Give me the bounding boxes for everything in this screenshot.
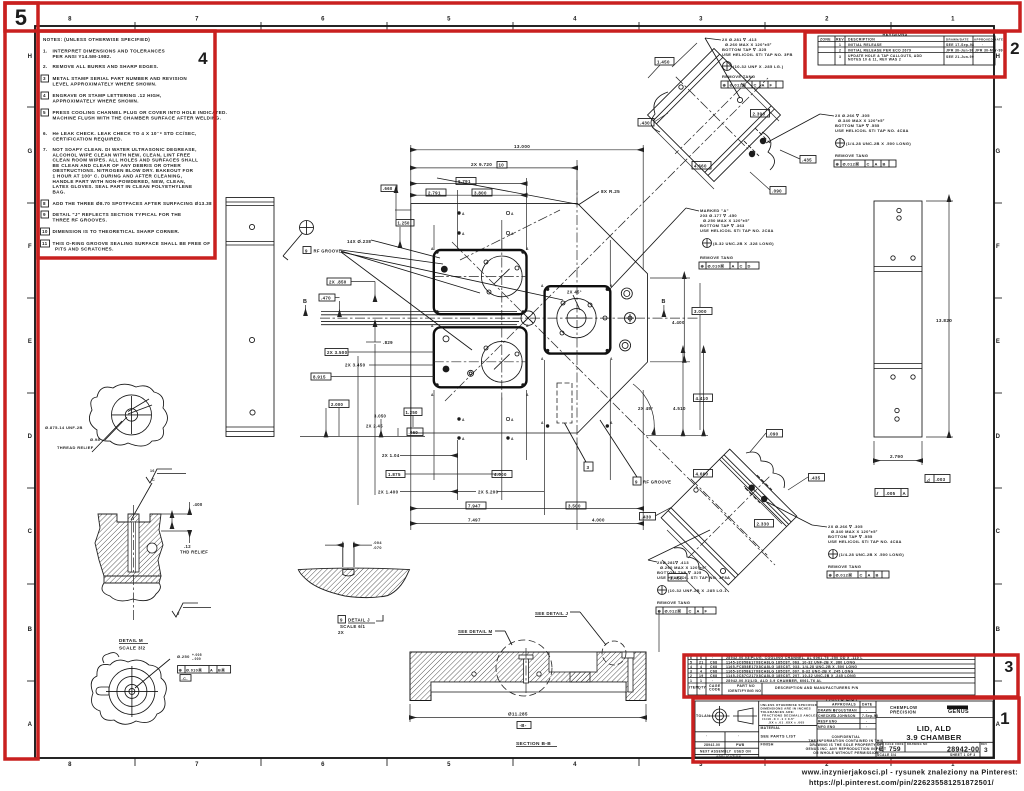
- svg-text:SEE 21-Jun-99: SEE 21-Jun-99: [946, 55, 974, 59]
- svg-text:·: ·: [706, 734, 707, 738]
- svg-text:19: 19: [699, 674, 704, 678]
- notes text block: [41, 37, 228, 252]
- svg-text:13.000: 13.000: [514, 144, 530, 149]
- thread relief detail blob: [89, 384, 167, 452]
- svg-text:APPROVED/DATE: APPROVED/DATE: [974, 38, 1003, 42]
- A-datum hole dots around plate: [431, 211, 613, 441]
- svg-text:.070: .070: [373, 546, 382, 550]
- svg-text:·: ·: [866, 720, 867, 724]
- detail J bowl: [298, 541, 409, 598]
- top right hole callout text: [766, 113, 911, 167]
- svg-text:1.250: 1.250: [406, 410, 419, 415]
- svg-text:METAL STAMP SERIAL PART NUMBER: METAL STAMP SERIAL PART NUMBER AND REVIS…: [53, 76, 188, 81]
- svg-text:2.: 2.: [43, 64, 48, 69]
- svg-text:3: 3: [699, 17, 703, 23]
- svg-text:3.500: 3.500: [568, 504, 581, 509]
- svg-text:A: A: [511, 232, 514, 236]
- svg-text:PITS AND SCRATCHES.: PITS AND SCRATCHES.: [55, 247, 114, 252]
- svg-text:T. JOHNSON: T. JOHNSON: [833, 714, 856, 718]
- tolerance cell: [761, 703, 818, 725]
- svg-text:2X 3.500: 2X 3.500: [327, 350, 348, 355]
- svg-text:DETAIL M: DETAIL M: [119, 638, 143, 643]
- right part 2.790 dim: [874, 441, 922, 465]
- svg-text:Ø.98: Ø.98: [90, 437, 100, 442]
- marked A callout text: [608, 208, 774, 291]
- svg-text:(8-32 UNC-2B X .328 LONG): (8-32 UNC-2B X .328 LONG): [713, 241, 774, 246]
- section B-B bottom dim: [410, 704, 646, 747]
- svg-text:A: A: [28, 722, 33, 728]
- svg-text:1145-3C858E17X8CA8LG 185C8T.: 1145-3C858E17X8CA8LG 185C8T. 063, 10-32 …: [726, 661, 855, 665]
- svg-text:THIS O-RING GROOVE SEALING SUR: THIS O-RING GROOVE SEALING SURFACE SHALL…: [53, 241, 211, 246]
- svg-text:2.790: 2.790: [890, 454, 903, 459]
- svg-text:21: 21: [699, 661, 704, 665]
- svg-text:A: A: [462, 212, 465, 216]
- svg-text:A: A: [462, 418, 465, 422]
- svg-text:CERTIFICATION REQUIRED.: CERTIFICATION REQUIRED.: [53, 137, 123, 142]
- svg-text:4: 4: [690, 665, 692, 669]
- svg-text:MACHINE FLUSH WITH THE CHAMBER: MACHINE FLUSH WITH THE CHAMBER SURFACE A…: [53, 116, 222, 121]
- svg-text:B: B: [28, 627, 33, 633]
- diagonal centerline to top rotated part: [445, 78, 768, 401]
- svg-text:BE CLEAN AND CLEAR OF ANY DEBR: BE CLEAN AND CLEAR OF ANY DEBRIS OR OTHE…: [53, 163, 182, 168]
- diagonal centerline to bottom rotated part: [452, 242, 775, 565]
- svg-text:DESCRIPTION: DESCRIPTION: [848, 38, 875, 42]
- svg-text:SCALE 3/4: SCALE 3/4: [877, 753, 896, 757]
- svg-text:.12: .12: [184, 544, 191, 549]
- dashed slot below boss3: [557, 383, 586, 462]
- index hole circles right of boss3: [620, 288, 636, 351]
- svg-text:A: A: [462, 437, 465, 441]
- svg-text:5: 5: [43, 110, 46, 115]
- svg-text:6: 6: [321, 17, 325, 23]
- svg-text:3: 3: [984, 747, 988, 754]
- svg-text:7.947: 7.947: [468, 504, 481, 509]
- center RF boss square 3: [545, 286, 611, 353]
- svg-text:NOT SOAPY CLEAN. DI WATER ULTR: NOT SOAPY CLEAN. DI WATER ULTRASONIC DEG…: [53, 147, 197, 152]
- svg-text:RESP ENG: RESP ENG: [818, 720, 837, 724]
- detail M blob: [91, 653, 170, 725]
- svg-text:(10-32 UNF-2B X .285 LG.1: (10-32 UNF-2B X .285 LG.1: [668, 588, 727, 593]
- svg-text:A: A: [210, 668, 213, 672]
- svg-text:-C-: -C-: [182, 677, 189, 681]
- svg-text:A: A: [511, 437, 514, 441]
- svg-text:QTY: QTY: [698, 686, 707, 690]
- svg-text:PWB: PWB: [736, 743, 745, 747]
- svg-text:A: A: [541, 284, 544, 288]
- svg-text:◿: ◿: [926, 477, 931, 482]
- svg-text:.005: .005: [886, 491, 896, 496]
- svg-text:2: 2: [825, 17, 829, 23]
- svg-text:THREAD RELIEF: THREAD RELIEF: [57, 445, 94, 450]
- center stud detail M feature: [519, 655, 533, 659]
- svg-text:2X 1.400: 2X 1.400: [378, 490, 399, 495]
- svg-text:Ø.875-14 UNF-2B: Ø.875-14 UNF-2B: [45, 425, 83, 430]
- svg-text:C: C: [740, 264, 743, 269]
- svg-text:IDENTIFYING NO: IDENTIFYING NO: [728, 689, 761, 693]
- bottom dimension stack: [300, 360, 643, 530]
- svg-text:(1/4-28 UNC-2B X .500 LONG): (1/4-28 UNC-2B X .500 LONG): [846, 141, 911, 146]
- svg-text:4.000: 4.000: [494, 472, 507, 477]
- top part dims: [638, 43, 816, 194]
- svg-text:DRAWING NO: DRAWING NO: [907, 742, 928, 746]
- svg-text:4.510: 4.510: [673, 406, 686, 411]
- svg-text:3: 3: [43, 76, 46, 81]
- svg-text:SHEET 1 OF 3: SHEET 1 OF 3: [950, 753, 975, 757]
- svg-text:1: 1: [690, 679, 692, 683]
- svg-text:·: ·: [866, 725, 867, 729]
- svg-text:3.000: 3.000: [694, 309, 707, 314]
- svg-text:1145-2C87C217X8CA8LG 185C8T. 2: 1145-2C87C217X8CA8LG 185C8T. 207. 10-32 …: [726, 674, 856, 678]
- svg-text:www.inzynierjakosci.pl - rysun: www.inzynierjakosci.pl - rysunek znalezi…: [801, 768, 1018, 777]
- svg-text:G: G: [995, 149, 1000, 155]
- svg-text:1.450: 1.450: [657, 59, 670, 64]
- svg-text:7.: 7.: [43, 147, 48, 152]
- right part 13.820 dim: [926, 201, 953, 437]
- red highlight box 5 : left margin column: [5, 3, 38, 759]
- svg-text:.400: .400: [193, 502, 203, 507]
- plate centerlines: [320, 78, 775, 565]
- svg-text:DATE: DATE: [862, 703, 873, 707]
- svg-text:4: 4: [700, 670, 702, 674]
- svg-text:ZONE: ZONE: [820, 38, 831, 42]
- svg-text:HANDLE PART WITH NON-POWDERED,: HANDLE PART WITH NON-POWDERED, NEW, CLEA…: [53, 179, 186, 184]
- svg-text:CODE: CODE: [709, 688, 721, 692]
- svg-text:C: C: [152, 478, 155, 482]
- svg-text:⊕: ⊕: [829, 573, 833, 578]
- svg-text:Ø.010Ⓜ: Ø.010Ⓜ: [186, 667, 202, 672]
- white pocket: [549, 652, 597, 672]
- svg-text:JPR 30-Jun-98: JPR 30-Jun-98: [946, 49, 974, 53]
- detail M callout: [177, 653, 231, 681]
- svg-text:.XX ± .01 .XXX ± .005: .XX ± .01 .XXX ± .005: [768, 721, 805, 725]
- svg-text:BⓂ: BⓂ: [218, 667, 225, 672]
- svg-text:USE HELICOIL STI TAP NO. 4C8A: USE HELICOIL STI TAP NO. 4C8A: [828, 539, 902, 544]
- svg-text:A: A: [732, 264, 735, 269]
- svg-text:Ø.012Ⓜ: Ø.012Ⓜ: [843, 161, 860, 167]
- red highlight box 4 : notes: [38, 31, 215, 258]
- svg-text:A: A: [697, 609, 700, 614]
- svg-text:He LEAK CHECK. LEAK CHECK TO 4: He LEAK CHECK. LEAK CHECK TO 4 X 10⁻⁹ ST…: [53, 131, 197, 136]
- svg-text:3: 3: [839, 55, 841, 59]
- svg-text:USE HELICOIL STI TAP NO. 3FB: USE HELICOIL STI TAP NO. 3FB: [722, 52, 793, 57]
- svg-text:SCALE 6/1: SCALE 6/1: [340, 624, 366, 629]
- svg-text:4: 4: [43, 93, 46, 98]
- svg-text:8.915: 8.915: [313, 375, 326, 380]
- svg-text:INITIAL RELEASE PER ECO 2679: INITIAL RELEASE PER ECO 2679: [848, 49, 911, 53]
- svg-text:3.800: 3.800: [474, 190, 487, 195]
- svg-text:USE HELICOIL STI TAP NO. 4C8A: USE HELICOIL STI TAP NO. 4C8A: [835, 128, 909, 133]
- top part hole callout text: [705, 37, 793, 98]
- svg-text:LID, ALD: LID, ALD: [917, 724, 952, 733]
- svg-text:1 HOUR AT 100° C. DURING AND A: 1 HOUR AT 100° C. DURING AND AFTER CLEAN…: [53, 174, 183, 179]
- svg-text:.060: .060: [409, 430, 419, 435]
- svg-text:H: H: [28, 54, 33, 60]
- svg-text:SCALE 3/2: SCALE 3/2: [119, 646, 145, 651]
- right side dims of plate: [633, 278, 713, 435]
- svg-text:3.050: 3.050: [374, 414, 387, 419]
- svg-text:https://pl.pinterest.com/pin/2: https://pl.pinterest.com/pin/22623558125…: [809, 778, 994, 787]
- svg-text:5: 5: [447, 17, 451, 23]
- svg-text:1: 1: [1000, 709, 1010, 728]
- svg-text:2X .850: 2X .850: [329, 280, 347, 285]
- svg-text:5: 5: [447, 762, 451, 768]
- svg-text:RF GROOVE: RF GROOVE: [643, 480, 671, 485]
- svg-text:A: A: [762, 83, 765, 88]
- svg-text:B: B: [996, 627, 1001, 633]
- svg-text:6: 6: [321, 762, 325, 768]
- svg-text:D: D: [748, 264, 751, 269]
- flag 3: [584, 462, 593, 471]
- svg-text:ALCOHOL WIPE CLEAN WITH NEW, C: ALCOHOL WIPE CLEAN WITH NEW, CLEAN, LINT…: [53, 152, 191, 157]
- svg-text:F: F: [28, 244, 32, 250]
- svg-text:A: A: [511, 418, 514, 422]
- svg-text:PER ANSI Y14.5M-1982.: PER ANSI Y14.5M-1982.: [53, 54, 112, 59]
- svg-text:NOTES 10 & 11, REV WAS 2: NOTES 10 & 11, REV WAS 2: [848, 58, 901, 62]
- svg-text:·: ·: [712, 679, 714, 683]
- svg-text:3.9 CHAMBER: 3.9 CHAMBER: [906, 733, 961, 742]
- diagonal centerline upper-left short: [460, 210, 560, 260]
- svg-text:·: ·: [982, 43, 983, 47]
- svg-text:INITIAL RELEASE: INITIAL RELEASE: [848, 43, 882, 47]
- svg-text:B: B: [303, 299, 307, 305]
- svg-text:.435: .435: [802, 157, 812, 162]
- left small dim boxes: [358, 185, 414, 505]
- svg-text:1165-FC858E17X8CA8LG 185C8T. 0: 1165-FC858E17X8CA8LG 185C8T. 033. 1/4-28…: [726, 665, 857, 669]
- stacked horizontal lines left of X node: [321, 312, 519, 325]
- datum target symbol near left part: [283, 221, 314, 257]
- svg-text:⊕: ⊕: [658, 609, 662, 614]
- thread relief labels: [45, 425, 100, 450]
- svg-text:F: F: [705, 609, 708, 614]
- svg-text:2: 2: [839, 49, 841, 53]
- svg-text:DIMENSION IS TO THEORETICAL SH: DIMENSION IS TO THEORETICAL SHARP CORNER…: [53, 229, 180, 234]
- svg-text:MFG ENG: MFG ENG: [818, 725, 835, 729]
- svg-text:2X 9.720: 2X 9.720: [471, 162, 492, 167]
- svg-text:USED ON: USED ON: [734, 750, 751, 754]
- svg-text:.003: .003: [936, 477, 946, 482]
- footer credit text: [801, 768, 1018, 788]
- svg-text:G. GUSTMAN: G. GUSTMAN: [833, 709, 857, 713]
- svg-text:⫽: ⫽: [876, 491, 879, 496]
- svg-text:4.660: 4.660: [696, 471, 709, 476]
- bottom part dims: [640, 430, 825, 595]
- svg-text:C68: C68: [710, 665, 717, 669]
- surface finish symbol 1: [131, 469, 186, 520]
- svg-text:5: 5: [690, 661, 692, 665]
- svg-text:E: E: [28, 339, 32, 345]
- svg-text:OR WHOLE WITHOUT PERMISSION: OR WHOLE WITHOUT PERMISSION: [813, 751, 879, 755]
- red highlight box 1 : title block: [693, 698, 1019, 762]
- svg-text:10: 10: [499, 163, 505, 168]
- SEE DETAIL labels: [458, 611, 606, 645]
- svg-text:APPROXIMATELY WHERE SHOWN.: APPROXIMATELY WHERE SHOWN.: [53, 99, 139, 104]
- svg-text:DETAIL "J" REFLECTS SECTION TY: DETAIL "J" REFLECTS SECTION TYPICAL FOR …: [53, 212, 182, 217]
- svg-text:C: C: [28, 529, 33, 535]
- svg-text:.090: .090: [772, 188, 782, 193]
- svg-text:PRESS COOLING CHANNEL PLUG OR: PRESS COOLING CHANNEL PLUG OR COVER INTO…: [53, 110, 228, 115]
- svg-text:.660: .660: [383, 186, 393, 191]
- RF boss square 2 (bottom): [434, 327, 527, 387]
- svg-text:USE HELICOIL STI TAP NO. 2C8A: USE HELICOIL STI TAP NO. 2C8A: [700, 228, 774, 233]
- svg-text:A: A: [431, 247, 434, 251]
- svg-text:⊕: ⊕: [701, 264, 705, 269]
- svg-text:6.: 6.: [43, 131, 48, 136]
- svg-text:2X: 2X: [338, 630, 344, 635]
- svg-text:1: 1: [700, 679, 702, 683]
- svg-text:13.820: 13.820: [936, 318, 952, 323]
- svg-text:2.330: 2.330: [757, 521, 770, 526]
- svg-text:4.660: 4.660: [694, 163, 707, 168]
- cup cross-section detail: [95, 505, 163, 620]
- svg-text:⊕: ⊕: [179, 668, 183, 672]
- svg-text:Ø11.285: Ø11.285: [508, 712, 528, 717]
- svg-text:759: 759: [889, 746, 901, 753]
- svg-text:10: 10: [42, 229, 48, 234]
- svg-text:1.875: 1.875: [388, 472, 401, 477]
- svg-text:Ø.010Ⓜ: Ø.010Ⓜ: [708, 263, 725, 269]
- svg-text:1.250: 1.250: [398, 221, 411, 226]
- svg-text:4: 4: [573, 17, 577, 23]
- svg-text:.004: .004: [373, 541, 382, 545]
- revisions table: [818, 32, 1003, 66]
- svg-text:H: H: [996, 54, 1001, 60]
- svg-text:A: A: [541, 421, 544, 425]
- svg-text:A: A: [526, 324, 529, 328]
- left side-view bar part: [226, 198, 274, 437]
- svg-text:(10-32 UNF X .285 LG.): (10-32 UNF X .285 LG.): [733, 64, 784, 69]
- svg-text:CLEAN ROOM WIPES. ALL HOLES AN: CLEAN ROOM WIPES. ALL HOLES AND SURFACES…: [53, 158, 199, 163]
- svg-text:RF GROOVE: RF GROOVE: [314, 248, 342, 253]
- svg-text:.090: .090: [769, 431, 779, 436]
- svg-text:-.000: -.000: [192, 657, 201, 661]
- svg-text:Ø.012Ⓜ: Ø.012Ⓜ: [665, 608, 682, 614]
- svg-text:DESCRIPTION AND MANUFACTURER: DESCRIPTION AND MANUFACTURERS P/N: [775, 686, 859, 690]
- svg-text:9: 9: [340, 618, 343, 623]
- title block: [695, 701, 993, 759]
- svg-text:Ø.250: Ø.250: [177, 654, 190, 659]
- svg-text:4.000: 4.000: [592, 518, 605, 523]
- detail J slot feature: [622, 652, 634, 658]
- svg-text:·: ·: [738, 734, 739, 738]
- svg-text:7: 7: [195, 17, 199, 23]
- svg-text:ADD THE THREE Ø8.70 SPOTFACES: ADD THE THREE Ø8.70 SPOTFACES AFTER SURF…: [53, 201, 213, 206]
- svg-text:8: 8: [68, 762, 72, 768]
- svg-text:A: A: [875, 162, 878, 167]
- svg-text:.430: .430: [640, 120, 650, 125]
- X node circle: [521, 311, 535, 325]
- svg-text:2X 2.45: 2X 2.45: [366, 424, 383, 429]
- svg-text:C: C: [867, 162, 870, 167]
- svg-text:C: C: [860, 573, 863, 578]
- svg-text:FINISH: FINISH: [761, 743, 774, 747]
- svg-text:A: A: [462, 232, 465, 236]
- svg-text:8: 8: [43, 201, 46, 206]
- svg-text:C: C: [996, 529, 1001, 535]
- svg-text:THD RELIEF: THD RELIEF: [180, 550, 208, 555]
- svg-text:.435: .435: [811, 475, 821, 480]
- surface finish symbol 2: [172, 603, 211, 617]
- leader lines from left part to plate: [283, 256, 288, 260]
- svg-text:A: A: [903, 491, 907, 496]
- red highlight top strip: [5, 3, 1020, 31]
- svg-text:2: 2: [1010, 39, 1020, 58]
- svg-text:D: D: [28, 434, 33, 440]
- svg-text:MATERIAL: MATERIAL: [761, 726, 781, 730]
- flag 9 RF GROOVE: [600, 420, 671, 485]
- svg-text:11: 11: [42, 241, 48, 246]
- svg-text:SEE PARTS LIST: SEE PARTS LIST: [761, 735, 797, 739]
- svg-text:E: E: [996, 339, 1000, 345]
- svg-text:1.: 1.: [43, 49, 48, 54]
- svg-text:E: E: [879, 746, 884, 753]
- svg-text:(1/4-28 UNC-2B X .500 LONG): (1/4-28 UNC-2B X .500 LONG): [839, 552, 904, 557]
- svg-text:NOTES: (UNLESS OTHERWISE SPECI: NOTES: (UNLESS OTHERWISE SPECIFIED): [43, 37, 150, 42]
- section B-B: [410, 610, 659, 701]
- svg-text:THREE RF GROOVES.: THREE RF GROOVES.: [53, 218, 108, 223]
- svg-text:F: F: [770, 83, 773, 88]
- RF boss square 1 (top): [434, 250, 527, 314]
- svg-text:B: B: [876, 573, 879, 578]
- svg-text:.470: .470: [321, 296, 331, 301]
- svg-text:C68: C68: [710, 661, 717, 665]
- svg-text:PRECISION: PRECISION: [890, 710, 916, 715]
- dashed detail circles: [496, 640, 552, 696]
- svg-text:9: 9: [305, 248, 308, 253]
- svg-text:2X 45°: 2X 45°: [567, 290, 582, 295]
- svg-text:ENGRAVE OR STAMP LETTERING .12: ENGRAVE OR STAMP LETTERING .12 HIGH,: [53, 93, 162, 98]
- svg-text:A: A: [541, 357, 544, 361]
- svg-text:7-Sep-98: 7-Sep-98: [862, 714, 878, 718]
- cup section dims: [161, 502, 208, 555]
- svg-text:INTERPRET DIMENSIONS AND TOLER: INTERPRET DIMENSIONS AND TOLERANCES: [53, 49, 166, 54]
- parts list table: [688, 655, 975, 695]
- svg-text:B: B: [883, 162, 886, 167]
- bottom rotated weld-boss part: [650, 439, 808, 597]
- svg-text:APPLICATION: APPLICATION: [716, 755, 742, 759]
- svg-text:5: 5: [15, 5, 28, 30]
- svg-text:.430: .430: [642, 514, 652, 519]
- svg-text:SEE DETAIL J: SEE DETAIL J: [535, 611, 569, 616]
- svg-text:⊕: ⊕: [836, 162, 840, 167]
- bottom left hole callout text: [648, 530, 730, 614]
- svg-text:NEXT ASSEMBLY: NEXT ASSEMBLY: [700, 750, 732, 754]
- svg-text:LEVEL APPROXIMATELY WHERE SHOW: LEVEL APPROXIMATELY WHERE SHOWN.: [53, 82, 157, 87]
- svg-text:C68: C68: [710, 674, 717, 678]
- svg-text:9: 9: [635, 480, 638, 485]
- svg-text:4: 4: [700, 665, 702, 669]
- svg-text:4: 4: [198, 49, 208, 68]
- svg-text:A: A: [431, 324, 434, 328]
- svg-text:C: C: [754, 83, 757, 88]
- bottom right hole callout text: [767, 502, 904, 578]
- svg-text:REV: REV: [981, 742, 987, 746]
- svg-text:Ø.012Ⓜ: Ø.012Ⓜ: [836, 572, 853, 578]
- svg-text:2: 2: [690, 674, 692, 678]
- left feature callouts: [303, 239, 563, 380]
- svg-text:3: 3: [587, 465, 590, 470]
- DETAIL M label: [119, 638, 148, 651]
- svg-text:REMOVE TANG: REMOVE TANG: [700, 255, 733, 260]
- svg-text:3: 3: [690, 670, 692, 674]
- svg-text:3: 3: [1004, 659, 1013, 676]
- svg-text:REMOVE TANG: REMOVE TANG: [657, 600, 690, 605]
- svg-text:4.410: 4.410: [696, 396, 709, 401]
- svg-text:V: V: [177, 612, 180, 616]
- svg-text:BAG.: BAG.: [53, 189, 66, 194]
- break-line bulge on W side: [651, 92, 668, 132]
- svg-text:G: G: [27, 149, 32, 155]
- red highlight box 3 : parts list: [684, 655, 1018, 697]
